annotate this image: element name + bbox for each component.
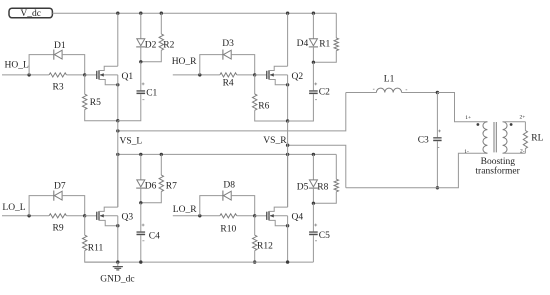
label R9 xyxy=(53,223,64,233)
label HO_L xyxy=(5,60,29,70)
node VS_L cap line xyxy=(116,119,119,122)
svg-text:R2: R2 xyxy=(163,41,174,51)
wire C5 bottom xyxy=(312,235,314,262)
svg-text:Q2: Q2 xyxy=(292,72,304,82)
transistor Q4 channel bar xyxy=(268,211,270,220)
label D8 xyxy=(223,181,235,191)
label R7 xyxy=(166,182,177,192)
wire Q2 drain up xyxy=(287,13,289,66)
node top rail Q1 drain xyxy=(116,12,119,15)
node GND Q4 source xyxy=(286,260,289,263)
wire D3 branch right-down xyxy=(231,55,255,75)
inductor L1 terminal ticks xyxy=(373,88,407,91)
label primary 1- xyxy=(464,149,469,155)
transistor Q1 drain lead xyxy=(99,66,118,70)
svg-text:VS_L: VS_L xyxy=(120,137,143,147)
svg-text:D2: D2 xyxy=(145,41,157,51)
ground symbol xyxy=(113,262,123,270)
label RL xyxy=(531,133,543,143)
wire D7 branch right-down xyxy=(62,196,85,216)
svg-text:VS_R: VS_R xyxy=(263,136,287,146)
voltage source V_dc box xyxy=(9,8,52,19)
wire junction to C1 xyxy=(140,62,142,91)
node top rail Q2 drain xyxy=(286,12,289,15)
svg-text:LO_R: LO_R xyxy=(173,205,197,215)
resistor R4 xyxy=(220,73,237,77)
node R12 bottom xyxy=(253,260,256,263)
label GND_dc xyxy=(100,274,134,284)
svg-text:C5: C5 xyxy=(319,231,330,241)
node Q1 source junction xyxy=(116,83,119,86)
transformer core xyxy=(494,122,496,152)
transistor Q4 gate bar xyxy=(266,212,268,220)
wire D4 branch top xyxy=(312,13,314,39)
label C4 xyxy=(149,232,160,242)
wire Q2 source down xyxy=(287,75,289,121)
transistor Q2 gate bar xyxy=(266,71,268,79)
label secondary 2+ xyxy=(520,115,526,121)
resistor R9 xyxy=(49,214,66,218)
label L1 xyxy=(384,75,395,85)
wire junction to C2 xyxy=(312,62,314,90)
svg-text:C2: C2 xyxy=(319,88,330,98)
svg-text:R11: R11 xyxy=(88,244,104,254)
svg-text:D6: D6 xyxy=(145,182,157,192)
capacitor C1 polarity marks xyxy=(142,83,145,100)
label C3 xyxy=(418,135,429,145)
label R1 xyxy=(319,39,330,49)
svg-text:2+: 2+ xyxy=(520,115,526,121)
label D3 xyxy=(222,39,234,49)
wire D8 branch right-down xyxy=(231,196,255,216)
svg-text:1+: 1+ xyxy=(465,115,471,121)
capacitor C4 xyxy=(137,231,146,235)
wire R9 to gate node xyxy=(66,215,84,217)
wire Q1 drain up xyxy=(117,13,119,66)
capacitor C5 polarity marks xyxy=(314,224,317,241)
wire C2 bottom xyxy=(288,94,314,121)
node HO_R split xyxy=(198,73,201,76)
label HO_R xyxy=(172,57,197,67)
svg-text:D1: D1 xyxy=(54,41,66,51)
transistor Q1 source lead xyxy=(99,80,118,85)
svg-text:R4: R4 xyxy=(223,78,234,88)
label C2 xyxy=(319,88,330,98)
diode D3 xyxy=(223,50,231,60)
wire D1 branch right-down xyxy=(62,55,85,75)
node GND C4 xyxy=(139,260,142,263)
wire Q3 source down xyxy=(117,216,119,262)
wire C4 bottom xyxy=(140,235,142,262)
transistor Q4 drain lead xyxy=(269,207,288,211)
diode D6 xyxy=(136,180,145,188)
label C1 xyxy=(146,88,157,98)
label secondary 2- xyxy=(520,148,525,154)
transformer primary winding xyxy=(483,122,487,154)
svg-text:C3: C3 xyxy=(418,135,429,145)
wire junction to C4 xyxy=(140,203,142,232)
wire R3 to gate node xyxy=(66,74,84,76)
svg-text:D3: D3 xyxy=(222,39,234,49)
wire D8 branch up-left xyxy=(200,196,223,216)
transistor Q3 drain lead xyxy=(99,207,118,211)
transistor Q4 body lead xyxy=(269,214,288,217)
label R6 xyxy=(258,102,269,112)
node top rail D2 xyxy=(139,12,142,15)
svg-text:R8: R8 xyxy=(317,183,328,193)
node L1 output xyxy=(436,91,439,94)
transistor Q3 channel bar xyxy=(98,211,100,220)
diode D4 xyxy=(309,39,318,47)
capacitor C2 polarity marks xyxy=(314,83,317,100)
svg-text:R9: R9 xyxy=(53,223,64,233)
wire Q4 gate lead xyxy=(255,215,267,217)
label LO_R xyxy=(173,205,197,215)
wire output return line xyxy=(346,153,488,188)
svg-text:L1: L1 xyxy=(384,75,395,85)
label D4 xyxy=(297,39,309,49)
transistor Q3 gate bar xyxy=(96,212,98,220)
resistor R11 branch xyxy=(83,216,118,262)
wire node to transformer top xyxy=(437,93,487,122)
capacitor C4 polarity marks xyxy=(142,224,145,241)
capacitor C3 xyxy=(433,137,441,141)
wire C3 bottom lead xyxy=(436,141,438,188)
transistor Q1 channel bar xyxy=(98,70,100,79)
label R5 xyxy=(90,98,101,108)
label Q2 xyxy=(292,72,304,82)
resistor R5 branch xyxy=(83,75,118,121)
svg-text:R3: R3 xyxy=(53,82,64,92)
wire D7 branch up-left xyxy=(29,196,54,216)
wire D3 branch up-left xyxy=(200,55,223,75)
wire Q4 drain up xyxy=(287,154,289,207)
wire HO_L input xyxy=(2,74,49,76)
svg-text:GND_dc: GND_dc xyxy=(100,274,134,284)
node Q4 source junction xyxy=(286,224,289,227)
wire C1 bottom xyxy=(118,94,141,121)
node HO_L split xyxy=(27,73,30,76)
wire D1 branch up-left xyxy=(29,55,54,75)
wire C3 top lead xyxy=(436,93,438,138)
svg-text:R5: R5 xyxy=(90,98,101,108)
wire GND bottom rail xyxy=(85,261,314,263)
node Q3 source junction xyxy=(116,224,119,227)
node top rail D4 xyxy=(312,12,315,15)
svg-text:1-: 1- xyxy=(464,149,469,155)
label D7 xyxy=(54,182,66,192)
label R3 xyxy=(53,82,64,92)
node Q3 gate xyxy=(83,214,86,217)
svg-text:R6: R6 xyxy=(258,102,269,112)
label VS_L xyxy=(120,137,143,147)
label D5 xyxy=(297,183,309,193)
node Q2 source junction xyxy=(286,83,289,86)
wire D6 to junction xyxy=(140,188,142,203)
node GND Q3 source xyxy=(116,260,119,263)
node feed line D5 xyxy=(312,153,315,156)
svg-text:C4: C4 xyxy=(149,232,160,242)
wire D5 branch top xyxy=(312,154,314,180)
diode D1 xyxy=(54,50,62,60)
wire D2 to junction xyxy=(140,46,142,61)
transistor Q2 drain lead xyxy=(269,66,288,70)
transistor Q1 body lead xyxy=(99,73,118,76)
svg-text:D4: D4 xyxy=(297,39,309,49)
svg-text:R12: R12 xyxy=(257,241,273,251)
resistor R1 xyxy=(313,13,338,62)
wire D4 to junction xyxy=(312,46,314,62)
wire Q3 drain up xyxy=(117,154,119,207)
node VS_L rail junction xyxy=(116,129,119,132)
node feed line VS_R xyxy=(286,153,289,156)
wire V_dc top rail xyxy=(52,12,336,14)
svg-text:LO_L: LO_L xyxy=(2,203,25,213)
wire HO_R input xyxy=(173,74,220,76)
resistor R6 branch xyxy=(253,75,288,121)
wire L1 left lead xyxy=(346,92,377,94)
wire L1 to node xyxy=(402,92,438,94)
node D5 R8 junction xyxy=(312,202,315,205)
wire Q1 source down xyxy=(117,75,119,121)
wire LO_R input xyxy=(173,215,220,217)
diode D2 xyxy=(136,39,145,47)
transistor Q3 body lead xyxy=(99,214,118,217)
wire secondary top xyxy=(503,121,526,123)
transistor Q4 source lead xyxy=(269,220,288,225)
transistor Q2 source lead xyxy=(269,80,288,85)
label R12 xyxy=(257,241,273,251)
label C5 xyxy=(319,231,330,241)
wire LO_L input xyxy=(2,215,49,217)
node feed line D6 xyxy=(139,153,142,156)
diode D7 xyxy=(54,191,62,201)
resistor RL xyxy=(523,122,527,154)
svg-text:Q3: Q3 xyxy=(122,213,134,223)
resistor R12 branch xyxy=(253,216,257,262)
svg-text:Q4: Q4 xyxy=(292,213,304,223)
label LO_L xyxy=(2,203,25,213)
svg-text:D7: D7 xyxy=(54,182,66,192)
node D4 R1 junction xyxy=(312,61,315,64)
svg-text:2-: 2- xyxy=(520,148,525,154)
label primary 1+ xyxy=(465,115,471,121)
resistor R3 xyxy=(49,73,66,77)
wire Q2 gate lead xyxy=(255,74,267,76)
transistor Q3 source lead xyxy=(99,220,118,225)
capacitor C3 polarity marks xyxy=(437,130,441,148)
resistor R10 xyxy=(220,214,237,218)
wire left leg VS_L vertical xyxy=(117,121,119,207)
wire D2 branch top xyxy=(140,13,142,39)
svg-text:R10: R10 xyxy=(220,224,236,234)
label Q1 xyxy=(122,72,134,82)
resistor R8 xyxy=(313,154,338,203)
label D1 xyxy=(54,41,66,51)
node D6 R7 junction xyxy=(139,201,142,204)
transistor Q2 channel bar xyxy=(268,70,270,79)
wire D5 to junction xyxy=(312,188,314,204)
svg-text:Q1: Q1 xyxy=(122,72,134,82)
wire R4 to gate node xyxy=(237,74,255,76)
transistor Q1 gate bar xyxy=(96,71,98,79)
wire R10 to gate node xyxy=(237,215,255,217)
diode D8 xyxy=(223,191,231,201)
svg-text:R7: R7 xyxy=(166,182,177,192)
node LO_R split xyxy=(198,214,201,217)
svg-text:transformer: transformer xyxy=(475,166,520,177)
svg-text:HO_R: HO_R xyxy=(172,57,197,67)
label Q3 xyxy=(122,213,134,223)
wire Q1 gate lead xyxy=(85,74,97,76)
label R10 xyxy=(220,224,236,234)
node VS_R rail junction xyxy=(286,144,289,147)
label R2 xyxy=(163,41,174,51)
label Boosting transformer xyxy=(475,157,520,176)
node D2 R2 junction xyxy=(139,60,142,63)
label D2 xyxy=(145,41,157,51)
transistor Q2 body lead xyxy=(269,73,288,76)
svg-text:V_dc: V_dc xyxy=(20,9,41,19)
wire Q4 source down xyxy=(287,216,289,262)
node top rail R2 xyxy=(160,12,163,15)
svg-text:D8: D8 xyxy=(223,181,235,191)
label R4 xyxy=(223,78,234,88)
label R8 xyxy=(317,183,328,193)
capacitor C1 xyxy=(137,90,146,94)
resistor R7 xyxy=(141,154,164,202)
wire D6 branch top xyxy=(140,154,142,180)
transformer secondary dot mark xyxy=(510,123,513,126)
wire VS_R rail xyxy=(288,145,346,188)
svg-text:R1: R1 xyxy=(319,39,330,49)
capacitor C5 xyxy=(309,231,318,235)
label VS_R xyxy=(263,136,287,146)
inductor L1 xyxy=(376,88,401,92)
diode D5 xyxy=(309,180,318,188)
svg-text:C1: C1 xyxy=(146,88,157,98)
node Q4 gate xyxy=(253,214,256,217)
svg-text:D5: D5 xyxy=(297,183,309,193)
wire Q3 gate lead xyxy=(85,215,97,217)
node return line C3 xyxy=(436,186,439,189)
capacitor C2 xyxy=(309,90,318,94)
node feed line VS_L xyxy=(116,153,119,156)
label D6 xyxy=(145,182,157,192)
resistor R2 xyxy=(141,13,164,62)
wire VS_L rail xyxy=(118,93,346,131)
svg-text:RL: RL xyxy=(531,133,543,143)
wire secondary bottom xyxy=(503,152,526,154)
svg-text:HO_L: HO_L xyxy=(5,60,29,70)
wire junction to C5 xyxy=(312,203,314,231)
node feed line R7 xyxy=(160,153,163,156)
transformer secondary winding xyxy=(503,122,507,154)
wire right leg VS_R vertical xyxy=(287,121,289,207)
label R11 xyxy=(88,244,104,254)
transformer primary dot mark xyxy=(477,123,480,126)
wire lower feed line xyxy=(118,153,336,155)
label Q4 xyxy=(292,213,304,223)
node Q2 gate xyxy=(253,73,256,76)
node Q1 gate xyxy=(83,73,86,76)
node LO_L split xyxy=(27,214,30,217)
node VS_R cap line xyxy=(286,119,289,122)
